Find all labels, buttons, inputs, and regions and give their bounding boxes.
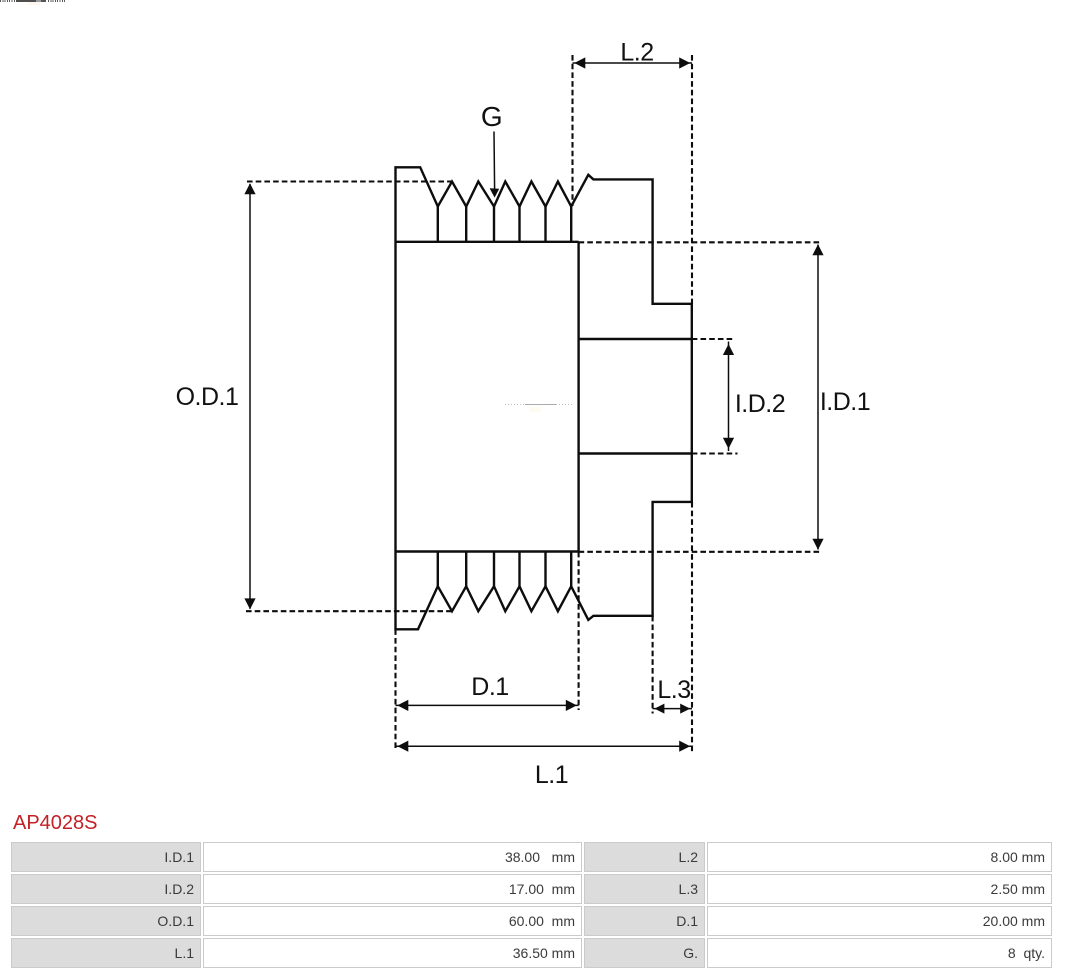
part number title [13,812,98,835]
arrowhead D.1 right [566,700,577,711]
arrowhead O.D.1 top [244,183,255,194]
arrowhead I.D.1 bottom [812,539,823,550]
arrowhead L.1 right [679,741,690,752]
extension line I.D.1 top [579,241,821,243]
arrowhead L.2 left [574,57,585,68]
leader line G [493,132,496,190]
extension line I.D.1 bottom [579,551,821,553]
arrowhead L.3 left [654,704,664,714]
extension line L.3 left [652,616,654,714]
rim-hub boundary lines [396,242,579,552]
bore I.D.2 edges [579,339,692,454]
specification table [9,840,1054,970]
extension line D.1 right [578,552,580,710]
arrowhead I.D.1 top [812,244,823,255]
centre faint watermark [505,404,573,405]
svg-text:L.3: L.3 [657,676,690,704]
svg-text:I.D.1: I.D.1 [820,388,870,416]
svg-text:G: G [481,101,502,132]
belt groove slots top [438,207,571,242]
svg-text:D.1: D.1 [471,673,508,701]
arrowhead L.2 right [679,57,690,68]
extension lines I.D.2 [692,339,738,454]
pulley cross-section outline [396,167,692,629]
extension line O.D.1 top [247,180,452,182]
svg-text:L.2: L.2 [620,39,653,67]
svg-text:O.D.1: O.D.1 [176,383,239,411]
belt groove slots bottom [438,552,571,587]
arrowhead G leader [490,188,500,197]
svg-text:I.D.2: I.D.2 [735,390,785,418]
dimension line L.1 [396,745,693,747]
arrowhead I.D.2 bottom [723,438,734,449]
arrowhead L.1 left [397,741,408,752]
extension line D.1/L.1 left [394,629,396,750]
arrowhead L.3 right [680,704,690,714]
dimension line I.D.1 [817,245,819,550]
dimension line L.2 [573,62,693,64]
extension line L.2 left [571,55,573,206]
svg-text:L.1: L.1 [535,761,568,789]
dimension line O.D.1 [249,184,251,609]
arrowhead D.1 left [397,700,408,711]
dimension line L.3 [653,708,692,710]
extension line O.D.1 bottom [246,610,451,612]
arrowhead I.D.2 top [723,344,734,355]
extension line L.2/L.1 right [691,55,693,752]
dimension line I.D.2 [728,342,730,452]
dimension line D.1 [396,704,579,706]
top-left cropped watermark logo strip [0,0,16,2]
arrowhead O.D.1 bottom [244,598,255,609]
